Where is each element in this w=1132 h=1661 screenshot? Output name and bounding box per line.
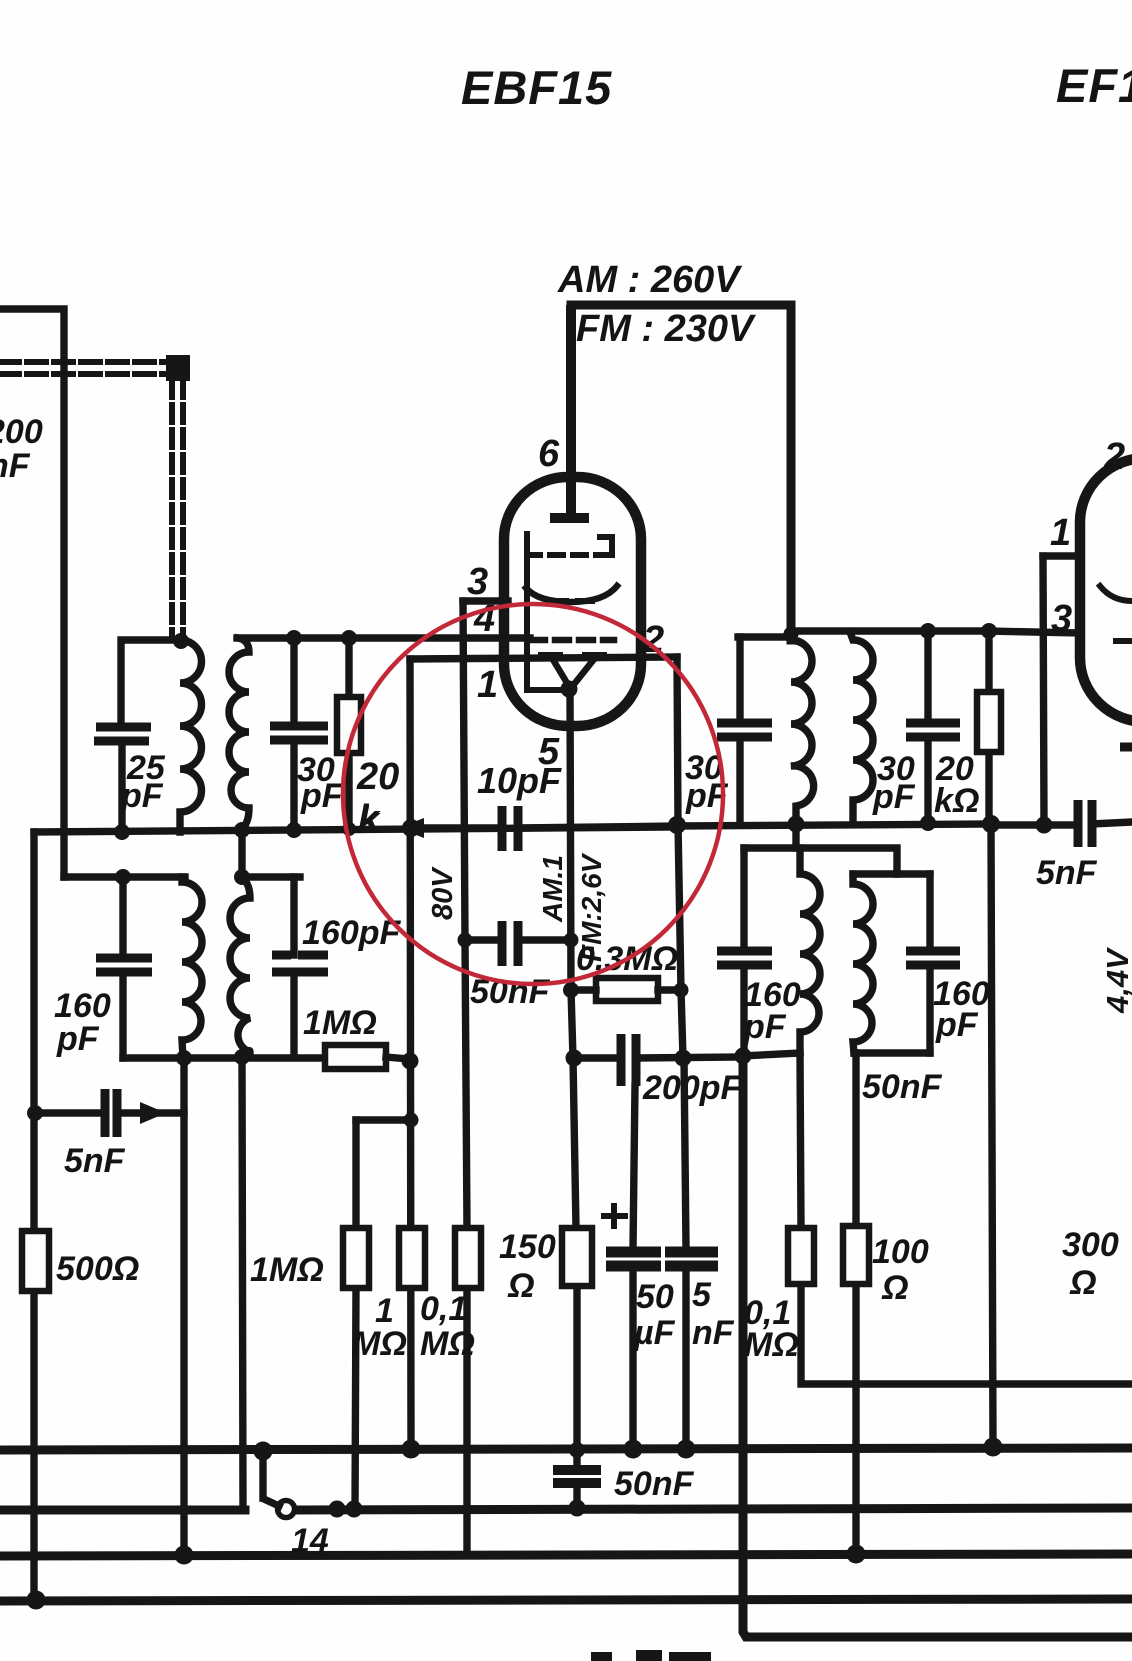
node C13 bottom [920, 815, 936, 831]
capacitor C4 160pF trimmer plates [272, 955, 328, 972]
wire C4 stems [290, 877, 297, 1056]
svg-text:Ω: Ω [507, 1267, 535, 1305]
wire top-left horizontal to antenna coil column [0, 309, 64, 877]
bus line 3 [0, 1554, 1132, 1556]
inductor L2 [229, 638, 249, 829]
node C7 left [458, 933, 473, 948]
svg-text:200pF: 200pF [642, 1069, 742, 1107]
node tank2 bottom C2 [286, 822, 302, 838]
svg-text:nF: nF [0, 447, 31, 485]
wire C10 bottom stem [682, 1266, 689, 1449]
tube V1 diode plates [538, 652, 607, 660]
tuning link corner blob [166, 355, 190, 381]
wire 10pF left [420, 824, 502, 831]
tube V2 grid curve partial [1100, 586, 1132, 601]
node link on x411 [404, 1113, 419, 1128]
svg-text:Ω: Ω [881, 1269, 909, 1307]
node B+ feed corner [784, 627, 799, 642]
red highlight circle annotation [343, 604, 723, 984]
wire tank4 vertical x242 to bus2 [242, 1056, 243, 1508]
wire pin1 vertical x1043 [1043, 556, 1044, 825]
svg-text:pF: pF [120, 777, 164, 815]
ganged tuning link (double dashed vertical) [172, 380, 183, 636]
resistor R9 20k body [977, 692, 1001, 752]
resistor R6 1M vertical body [399, 1228, 425, 1288]
node switch wire b (R5 bottom) [346, 1501, 363, 1518]
wire x856 vertical down to 100ohm [852, 1053, 859, 1554]
node bus1 x577 [569, 1442, 585, 1458]
svg-text:MΩ: MΩ [744, 1326, 799, 1364]
node AVC junction x411 [402, 1053, 419, 1070]
wire tank3 top (left 160pF tank) [64, 873, 185, 880]
wire pin2 vertical x677 [677, 657, 683, 1058]
svg-text:6: 6 [538, 433, 560, 475]
wire switch link [266, 1500, 279, 1506]
svg-text:150: 150 [499, 1228, 556, 1266]
capacitor C6 10pF plates [502, 806, 518, 851]
wire lower tankB bottom [854, 1049, 930, 1056]
tube V2 lower lead mark [1120, 743, 1132, 752]
node R4 left cathode [563, 982, 579, 998]
svg-text:Ω: Ω [1069, 1264, 1097, 1302]
wire AGC line to 5nF right [993, 821, 1078, 828]
inductor L5 IF primary [791, 640, 814, 824]
node C8 right junction [675, 1050, 692, 1067]
wire R5 1M top link [356, 1116, 411, 1123]
svg-text:pF: pF [300, 777, 344, 815]
bus line 2 left segment [0, 1506, 245, 1515]
wire pin1-pin2 through line [410, 657, 677, 659]
node switch stem on bus1 [254, 1442, 273, 1461]
wire C11 bottom stem [573, 1483, 580, 1508]
tube V1 EBF15 envelope [504, 477, 641, 726]
wire IF tank A bottom rail [677, 824, 993, 826]
inductor L1 antenna coil [180, 640, 202, 832]
wire C1 bottom stem [118, 741, 125, 832]
inductor L8 [853, 874, 873, 1053]
inductor L6 IF secondary [850, 632, 873, 824]
wire left ground branch vertical [30, 832, 37, 1601]
wire R4 left stub [571, 986, 596, 993]
resistor R5 1M vertical body [355, 1120, 356, 1509]
svg-text:k: k [358, 800, 381, 842]
resistor R4 0,3M body [596, 978, 658, 1001]
node R9 top [981, 623, 997, 639]
svg-text:EBF15: EBF15 [461, 61, 612, 114]
svg-text:3: 3 [467, 561, 488, 603]
svg-text:5: 5 [692, 1276, 712, 1314]
svg-text:MΩ: MΩ [352, 1325, 407, 1363]
resistor R1 20k stems [345, 638, 352, 830]
wire tank1 top [121, 640, 180, 726]
svg-text:100: 100 [872, 1233, 929, 1271]
svg-text:1: 1 [477, 664, 498, 706]
node tank3 top / C3 [115, 869, 131, 885]
wire lower tankA bottom [742, 1053, 800, 1056]
wire 200pF plate to 50uF [633, 1086, 635, 1249]
resistor R9 20k stems [985, 631, 992, 824]
bus line 2 right segment [295, 1508, 1132, 1510]
node tank2 bottom L2 [234, 822, 250, 838]
svg-text:4,4V: 4,4V [1100, 947, 1132, 1014]
svg-text:200: 200 [0, 413, 43, 451]
capacitor C3 160pF plates [96, 958, 152, 972]
node L5 bottom [788, 816, 805, 833]
capacitor C2 30pF plates [270, 726, 328, 740]
svg-text:10pF: 10pF [477, 760, 562, 801]
wire IF tank A top [738, 633, 791, 640]
wire tank4 top [242, 873, 300, 880]
node cathode junction [561, 681, 578, 698]
svg-text:1MΩ: 1MΩ [303, 1004, 377, 1042]
node tank2 bottom R1 [342, 822, 356, 836]
node L3 bottom [176, 1050, 192, 1066]
node switch wire a [329, 1501, 346, 1518]
wire C7 right [518, 936, 571, 943]
capacitor C11 50nF bottom plates [553, 1470, 601, 1483]
wire R4 right stub [658, 986, 681, 993]
switch 14 contact stem [259, 1450, 266, 1498]
node bus4 x34 [27, 1591, 46, 1610]
resistor R7 0,1M vertical body [463, 1288, 470, 1555]
wire lower tank A top [744, 844, 796, 851]
node bus1 x993 [984, 1438, 1003, 1457]
wire C14 right continuation [1092, 822, 1132, 824]
wire tank1 bottom rail [34, 827, 677, 832]
tube V1 grid row (pin 4, dashed) [531, 637, 614, 644]
tube V1 screen grid (dashed with hooks) [527, 534, 612, 555]
wire lower tank B top [853, 870, 930, 877]
wire C12 stems [736, 637, 743, 824]
wire C5 left [34, 1109, 105, 1116]
node C15 bottom junction [735, 1048, 752, 1065]
capacitor C14 5nF plates [1078, 800, 1092, 847]
node bus1 x686 [677, 1440, 696, 1459]
svg-text:160pF: 160pF [302, 914, 401, 952]
wire C8 right [636, 1057, 742, 1058]
svg-text:5nF: 5nF [64, 1142, 126, 1180]
node pin1 right tube drop [1036, 817, 1053, 834]
wire C16 stems [926, 874, 933, 1053]
svg-text:2: 2 [1103, 436, 1125, 478]
wire 5nF drop from node [684, 1058, 686, 1247]
svg-text:3: 3 [1051, 598, 1072, 640]
svg-text:EF12: EF12 [1056, 59, 1132, 112]
node tank3 top corner [234, 869, 250, 885]
wire tank2 top rail (grid wire to pin 4) [237, 634, 530, 641]
svg-text:FM : 230V: FM : 230V [576, 308, 756, 350]
bus line 4 [0, 1599, 1132, 1601]
wire B+ feed horizontal to tank B [791, 627, 987, 634]
svg-text:1MΩ: 1MΩ [250, 1251, 324, 1289]
resistor R8 150 body [573, 1286, 580, 1469]
resistor R11 100 body [843, 1226, 869, 1284]
arrow on C5 wire [140, 1102, 166, 1124]
arrow on 10pF wire [398, 818, 424, 838]
node tank1 bottom / C1 junction [114, 824, 130, 840]
svg-text:kΩ: kΩ [934, 782, 979, 820]
wire right tube pin1 lead [1043, 552, 1080, 559]
node tank2 top R1 [341, 630, 357, 646]
wire pin3 vertical x463 [463, 601, 467, 1228]
wire C5 right with arrow [117, 1109, 184, 1116]
node R4 right [674, 983, 689, 998]
node bus1 x633 [624, 1440, 643, 1459]
svg-text:50nF: 50nF [614, 1465, 695, 1503]
svg-text:pF: pF [56, 1020, 100, 1058]
svg-text:14: 14 [291, 1522, 329, 1560]
svg-text:0,1: 0,1 [420, 1290, 467, 1328]
svg-text:µF: µF [633, 1314, 676, 1352]
svg-text:300: 300 [1062, 1226, 1119, 1264]
bus line 5 from corner x743 [743, 1057, 1132, 1637]
node bus3 x856 [847, 1545, 866, 1564]
wire AVC vertical x184 to bus3 [180, 1058, 187, 1555]
wire x993 long vertical to bus1 [991, 824, 993, 1447]
wire C9 bottom stem [629, 1266, 636, 1449]
node pin2 column top of tank feed [668, 816, 686, 834]
wire pin1 vertical x411 [410, 659, 411, 1449]
wire tank3 link vertical [238, 830, 245, 877]
wire pin3 feed to right tube [987, 631, 1080, 633]
wire cathode pin5 vertical [570, 689, 576, 1228]
wire C2 stems [290, 638, 297, 830]
inductor L4 [230, 877, 250, 1055]
tube V2 grid dash [1116, 638, 1132, 644]
wire pin3 lead [463, 597, 508, 604]
inductor L7 [800, 848, 820, 1053]
svg-text:5nF: 5nF [1036, 854, 1098, 892]
node tank bottom to vertical x993 [982, 815, 1000, 833]
svg-text:80V: 80V [427, 866, 459, 920]
node L1 top dashed link [173, 633, 189, 649]
svg-text:AM : 260V: AM : 260V [557, 259, 742, 301]
inductor L3 [182, 877, 202, 1058]
node C5 left [27, 1105, 43, 1121]
node tank2 top C2 [286, 630, 302, 646]
node C7 right on cathode line [564, 933, 579, 948]
wire C3 stems [119, 877, 126, 1058]
capacitor C1 25pF plates [94, 727, 151, 741]
svg-text:50: 50 [636, 1278, 674, 1316]
tube V1 control grid curve [526, 586, 617, 602]
svg-text:MΩ: MΩ [420, 1325, 475, 1363]
node bus3 x184 [175, 1546, 194, 1565]
wire C15 stems [740, 848, 747, 1056]
capacitor C16 160pF plates [906, 951, 960, 965]
wire x801 vertical from L7 to 0,1M [800, 1053, 1132, 1384]
svg-text:1: 1 [1050, 512, 1071, 554]
node bus1 x411 [402, 1440, 421, 1459]
capacitor C15 160pF plates [717, 951, 772, 965]
wire C7 left [465, 936, 502, 943]
svg-text:pF: pF [743, 1008, 787, 1046]
svg-text:AM.1: AM.1 [537, 855, 568, 923]
svg-text:pF: pF [872, 778, 916, 816]
node bus2 x577 [569, 1500, 586, 1517]
capacitor C9 50uF plus sign [604, 1206, 625, 1226]
resistor R10 0,1M body [788, 1228, 814, 1284]
svg-text:20: 20 [356, 756, 399, 798]
ganged tuning link (double dashed horizontal) [0, 362, 180, 374]
bus line 1 (chassis) [0, 1448, 1132, 1450]
capacitor C10 5nF plates [665, 1252, 718, 1266]
node C8 left on cathode line [566, 1050, 583, 1067]
node L4 bottom [234, 1049, 250, 1065]
capacitor C12 30pF plates [717, 723, 772, 737]
capacitor C8 200pF plates [621, 1034, 636, 1086]
wire R2 right stub [386, 1057, 409, 1059]
wire B+ rail rectangle (anode supply) [571, 305, 791, 640]
resistor R1 20k body [337, 697, 361, 753]
switch 14 open contact circle [278, 1501, 295, 1518]
capacitor C13 30pF plates [906, 723, 960, 737]
resistor R3 500 body [22, 1231, 49, 1291]
node C13 top [920, 623, 936, 639]
node grid k junction [402, 819, 420, 837]
svg-text:500Ω: 500Ω [56, 1250, 139, 1288]
tube V2 EF envelope (clipped) [1080, 458, 1132, 722]
wire 10pF right [518, 826, 677, 828]
capacitor C9 50uF plates [606, 1252, 661, 1266]
svg-text:pF: pF [935, 1006, 979, 1044]
svg-text:nF: nF [692, 1314, 735, 1352]
svg-text:50nF: 50nF [862, 1068, 943, 1106]
tube V1 anode bar and pin 6 lead [550, 305, 589, 518]
bottom edge text fragments (cut off) [591, 1652, 612, 1661]
tube V1 suppressor-to-cathode internal wire [527, 556, 565, 690]
wire C13 stems [924, 631, 931, 822]
step wire tankA bottom to lower tanks [796, 824, 897, 874]
capacitor C5 5nF plates [105, 1089, 117, 1137]
wire AVC line y1058 left [123, 1054, 325, 1061]
wire C8 left [573, 1054, 621, 1061]
resistor R2 1M horizontal body [325, 1045, 386, 1069]
capacitor C7 50nF plates [502, 921, 518, 966]
